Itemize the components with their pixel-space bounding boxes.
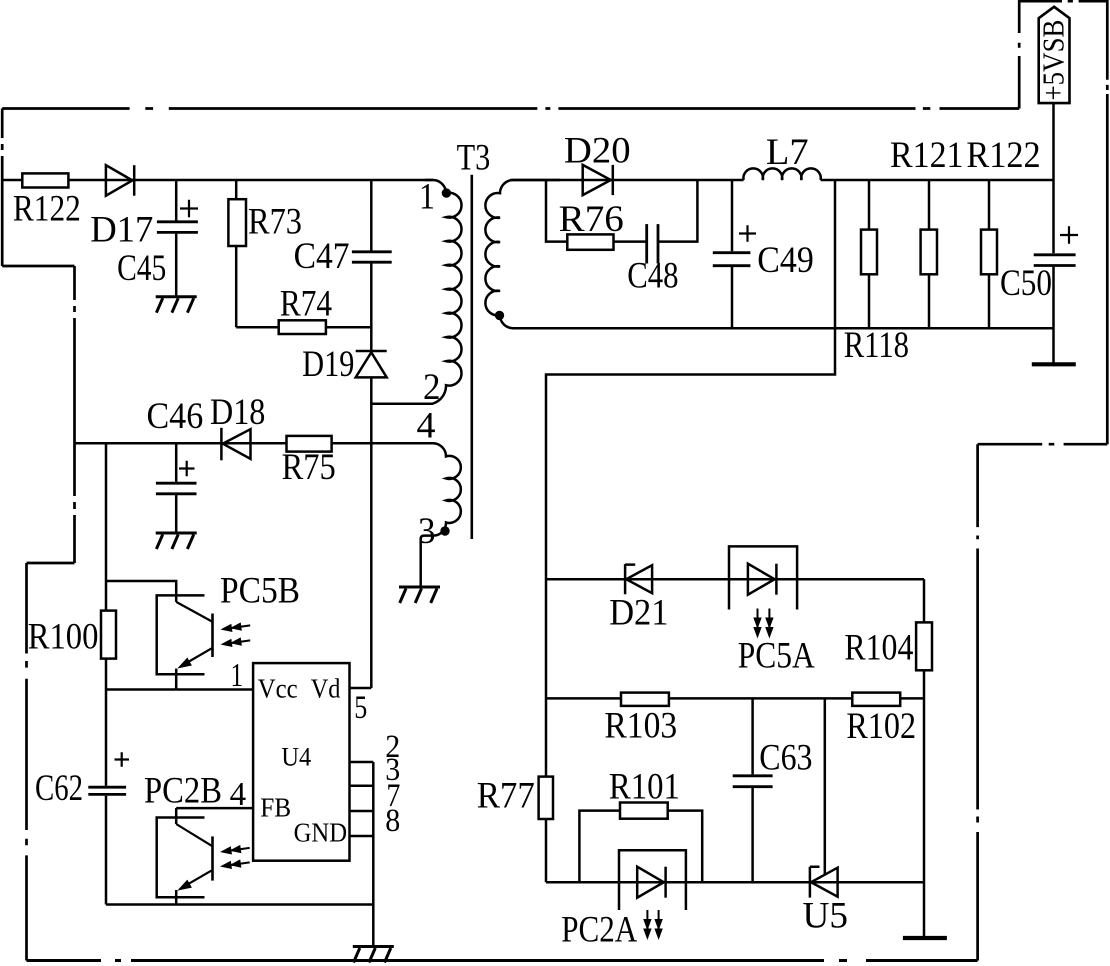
capacitor C47 (snubber, in drain line): [294, 180, 392, 351]
svg-text:4: 4: [230, 776, 247, 813]
svg-text:3: 3: [418, 511, 436, 552]
svg-text:FB: FB: [260, 792, 291, 822]
capacitor C62 (electrolytic on Vcc branch): [35, 690, 129, 905]
diode D17: [90, 165, 153, 250]
capacitor C48 (vertical plates in series loop): [627, 224, 678, 296]
right chain x=1107.3: [1106, 0, 1109, 444]
resistor R73 (vertical from rail): [228, 180, 302, 327]
diode D18 (cathode bar left, on aux rail): [210, 392, 265, 461]
svg-text:C46: C46: [147, 396, 204, 437]
lower-right chain x=977.6: [976, 444, 979, 960]
svg-text:C45: C45: [117, 248, 166, 289]
optocoupler phototransistor PC5B: [106, 571, 300, 690]
resistor R101 (parallel loop over PC2A): [579, 766, 702, 882]
svg-text:PC2B: PC2B: [144, 771, 222, 812]
resistor R121 (vertical load): [890, 135, 964, 328]
capacitor C49 (electrolytic output filter): [713, 180, 814, 328]
capacitor C45 (electrolytic to ground): [117, 180, 198, 296]
wire: primary top rail y=180 from left border to transformer pin 1: [2, 179, 433, 182]
capacitor C46 (electrolytic to ground): [147, 396, 204, 532]
bottom chain y=960.5: [27, 959, 978, 962]
svg-text:+5VSB: +5VSB: [1036, 20, 1071, 101]
optocoupler LED PC2A: [561, 850, 686, 950]
wire: secondary top rail y=180 (T3 secondary to L7 and +5VSB): [510, 179, 1054, 182]
resistor R102 (on row 2): [846, 693, 916, 747]
svg-text:R122: R122: [13, 189, 81, 230]
svg-text:R118: R118: [844, 325, 909, 366]
wire: feedback row 3 y=882.2: [546, 881, 924, 884]
svg-text:C62: C62: [35, 768, 83, 809]
svg-text:GND: GND: [294, 818, 348, 848]
inductor L7 (four bumps on top rail): [743, 132, 820, 180]
wire: R73 bottom to R74 left: [236, 326, 279, 329]
T3 auxiliary winding pins 4-3: [421, 443, 461, 586]
diode D21 (cathode bar left, with top hook): [609, 564, 668, 634]
svg-text:R103: R103: [604, 705, 677, 746]
ground (chassis) below C46: [156, 533, 197, 549]
capacitor C63 (row2 to row3): [733, 698, 813, 882]
wire: primary-side ground bus y=904.5: [106, 903, 373, 906]
resistor R122 (top-left, on rail): [22, 173, 68, 187]
svg-text:U5: U5: [803, 896, 849, 937]
wire: Vcc aux rail y=443.2 from left border to transformer pin 4: [75, 442, 435, 445]
svg-text:D19: D19: [302, 344, 354, 385]
diode D19 (vertical, cathode bar up): [302, 344, 386, 385]
wire: feedback row 2 y=698.4: [546, 697, 924, 700]
svg-text:5: 5: [354, 690, 367, 726]
svg-text:R102: R102: [846, 706, 916, 747]
notch vertical x=1019.2 up to top: [1018, 0, 1021, 109]
svg-text:R101: R101: [609, 766, 680, 807]
svg-text:R75: R75: [282, 447, 336, 488]
svg-text:D18: D18: [210, 392, 265, 433]
svg-text:R77: R77: [477, 775, 535, 816]
svg-text:PC2A: PC2A: [561, 909, 637, 950]
optocoupler phototransistor PC2B: [144, 771, 250, 905]
step chain y=444.2: [978, 443, 1108, 446]
svg-text:1: 1: [231, 657, 244, 694]
svg-text:8: 8: [385, 803, 400, 839]
wire: U4 pin 5 (Vd) stub to drain line: [350, 687, 372, 690]
svg-text:R74: R74: [280, 283, 332, 324]
svg-text:C48: C48: [627, 256, 678, 297]
resistor R76: [559, 199, 624, 250]
svg-text:T3: T3: [457, 138, 491, 179]
optocoupler LED PC5A: [729, 546, 815, 676]
mid-left chain x=74.5: [73, 266, 76, 563]
wire: U4 pins 2/3/7/8 stubs tied to ground bus: [350, 762, 374, 905]
resistor R100 (vertical): [28, 611, 116, 690]
shunt regulator U5 (cathode bar left with hook, ref from row 2): [803, 698, 849, 936]
svg-text:D21: D21: [609, 593, 668, 634]
wire: ground bus drop x=373.3: [372, 905, 375, 946]
svg-text:C49: C49: [757, 240, 814, 281]
wire: feedback row 1 y=579.2: [546, 578, 924, 581]
svg-text:Vd: Vd: [311, 673, 341, 703]
svg-text:R122: R122: [966, 135, 1040, 176]
wire: R76/C48 snubber loop verticals and links: [546, 180, 697, 242]
svg-text:1: 1: [419, 177, 435, 218]
T3 core line: [470, 175, 473, 539]
top chain line y=108.5 with three dash-dot breaks: [2, 107, 1019, 110]
svg-text:C50: C50: [1000, 263, 1052, 304]
svg-text:C63: C63: [759, 738, 812, 779]
svg-text:L7: L7: [766, 132, 809, 173]
svg-text:D20: D20: [564, 131, 631, 172]
transformer T3: [371, 138, 560, 603]
diode D20 (rectifier on top rail): [564, 131, 631, 196]
svg-text:Vcc: Vcc: [258, 673, 298, 703]
svg-text:R100: R100: [28, 617, 99, 658]
capacitor C50 (electrolytic at +5VSB output): [1000, 103, 1078, 363]
T3 secondary phase dot: [495, 311, 504, 320]
ground (chassis) of primary-side bus: [353, 947, 394, 963]
resistor R103 (on row 2): [604, 693, 677, 747]
left chain x=2.2: [1, 109, 4, 267]
resistor R74 (horizontal): [279, 283, 372, 334]
wire: U4 pin 4 (FB) y=808.1: [176, 807, 253, 810]
svg-text:PC5B: PC5B: [220, 571, 300, 612]
T3 pin 1 phase dot: [442, 188, 451, 197]
resistor R77 (vertical in x=546 branch): [477, 775, 553, 819]
T3 primary winding pins 1-2: [371, 180, 461, 404]
resistor R104 (vertical): [844, 579, 932, 670]
T3 secondary winding: [485, 180, 560, 328]
resistor R118 (vertical load): [844, 180, 909, 366]
ground (chassis) at T3 pin 3: [399, 587, 440, 603]
T3 pin 3 phase dot: [440, 526, 449, 535]
svg-text:R76: R76: [559, 199, 624, 240]
wire: Vcc branch x=106 from aux rail down to R100: [105, 443, 108, 611]
resistor R122 (vertical load, right): [966, 135, 1040, 328]
ground (chassis) below C45: [156, 297, 197, 313]
node +5VSB (flag terminal): [1036, 7, 1071, 103]
IC U4 (PWM controller): [253, 663, 349, 861]
ground (bar) lower right: [903, 937, 947, 939]
wire: R104 bottom rail down to ground (crosses rows 2,3): [923, 670, 926, 937]
resistor R75 (horizontal on aux rail): [282, 436, 336, 488]
wire: transformer pin 2 to drain line: [371, 402, 433, 405]
svg-text:4: 4: [417, 406, 436, 447]
svg-text:C47: C47: [294, 236, 350, 277]
wire: secondary bottom return rail y=328.2: [513, 327, 1054, 330]
svg-text:R104: R104: [844, 628, 913, 669]
svg-text:U4: U4: [281, 743, 311, 772]
svg-text:2: 2: [423, 367, 441, 408]
ground (bar) below C50: [1032, 363, 1076, 365]
svg-text:R121: R121: [890, 135, 964, 176]
lower step chain y=563: [27, 562, 75, 565]
svg-text:PC5A: PC5A: [738, 636, 815, 677]
wire: voltage sense line from +5VSB rail down and left to regulator section: [546, 180, 835, 882]
lower-left chain x=26.5: [25, 563, 28, 961]
svg-text:D17: D17: [90, 209, 153, 250]
left step chain y=266: [2, 265, 74, 268]
wire: U4 pin 1 (Vcc) rail y=689.5: [106, 688, 253, 691]
wire: drain line x=371.3 from D19 down to U4 pin5 level (crosses pin-4 wire): [370, 377, 373, 688]
top-right chain y=1.2: [1019, 0, 1107, 3]
